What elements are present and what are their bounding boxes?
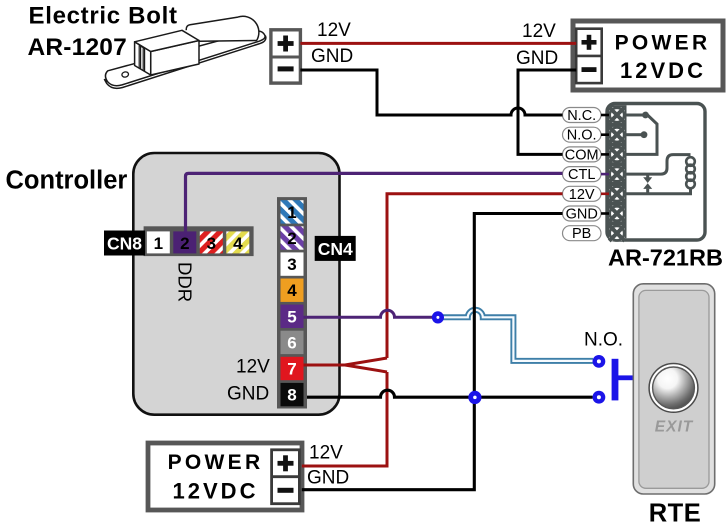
- svg-text:1: 1: [154, 234, 163, 253]
- svg-text:GND: GND: [307, 468, 349, 489]
- svg-text:GND: GND: [516, 48, 558, 69]
- svg-text:12V: 12V: [236, 356, 270, 377]
- svg-text:RTE: RTE: [649, 499, 702, 527]
- svg-text:COM: COM: [565, 147, 599, 163]
- svg-text:DDR: DDR: [175, 262, 196, 302]
- svg-text:8: 8: [287, 386, 296, 405]
- svg-text:4: 4: [233, 234, 243, 253]
- svg-text:7: 7: [287, 360, 296, 379]
- svg-text:12V: 12V: [317, 20, 351, 41]
- svg-text:GND: GND: [227, 384, 269, 405]
- svg-text:Controller: Controller: [6, 166, 128, 194]
- svg-text:12V: 12V: [309, 443, 343, 464]
- svg-text:1: 1: [287, 203, 296, 222]
- svg-text:POWER: POWER: [168, 451, 264, 474]
- svg-text:CN8: CN8: [107, 234, 142, 254]
- svg-text:AR-721RB: AR-721RB: [608, 244, 723, 270]
- svg-text:CTL: CTL: [568, 167, 595, 183]
- svg-text:12VDC: 12VDC: [173, 479, 259, 504]
- svg-text:CN4: CN4: [318, 239, 353, 259]
- svg-text:GND: GND: [311, 46, 353, 67]
- svg-text:12V: 12V: [569, 187, 595, 203]
- svg-text:N.O.: N.O.: [584, 330, 623, 351]
- svg-text:12VDC: 12VDC: [620, 58, 706, 83]
- svg-text:2: 2: [180, 234, 189, 253]
- svg-text:3: 3: [287, 255, 296, 274]
- svg-text:6: 6: [287, 333, 296, 352]
- svg-text:12V: 12V: [522, 21, 556, 42]
- svg-text:2: 2: [287, 229, 296, 248]
- svg-text:N.C.: N.C.: [567, 108, 596, 124]
- svg-text:4: 4: [287, 281, 297, 300]
- svg-text:5: 5: [287, 307, 296, 326]
- svg-text:N.O.: N.O.: [567, 128, 597, 144]
- svg-text:EXIT: EXIT: [655, 419, 694, 436]
- svg-text:AR-1207: AR-1207: [28, 34, 127, 61]
- svg-text:POWER: POWER: [615, 32, 711, 55]
- svg-text:GND: GND: [566, 207, 598, 223]
- svg-text:Electric Bolt: Electric Bolt: [29, 3, 178, 30]
- svg-text:PB: PB: [572, 226, 591, 242]
- svg-text:3: 3: [207, 234, 216, 253]
